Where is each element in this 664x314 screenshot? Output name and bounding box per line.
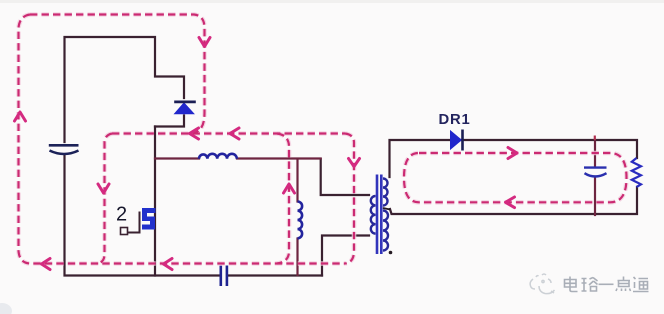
svg-text:DR1: DR1 <box>439 112 471 128</box>
svg-text:2: 2 <box>116 204 127 226</box>
